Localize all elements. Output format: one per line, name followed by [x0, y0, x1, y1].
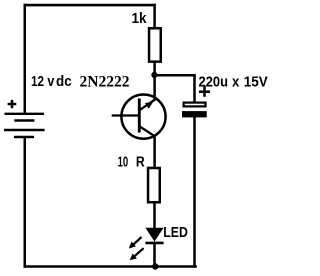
LED D1 cathode bar — [145, 242, 163, 245]
transistor Q1 collector diagonal — [139, 100, 155, 111]
wire left rail upper — [24, 4, 27, 114]
transistor Q1 base bar — [138, 99, 141, 133]
wire LED to bottom rail — [153, 242, 156, 267]
resistor R1 1k body — [149, 28, 161, 61]
wire collector lead — [153, 74, 156, 100]
wire bottom rail — [24, 265, 197, 268]
wire 1k to junction — [153, 62, 156, 77]
resistor R2 10R body — [148, 168, 160, 202]
capacitor C1 plus sign — [199, 85, 210, 96]
svg-text:R: R — [136, 155, 145, 171]
svg-text:x: x — [232, 75, 240, 91]
capacitor C1 top plate — [184, 103, 206, 107]
svg-text:v: v — [47, 74, 55, 90]
svg-text:15V: 15V — [244, 75, 268, 91]
svg-text:12: 12 — [31, 74, 44, 90]
battery B1 plate short — [14, 119, 34, 121]
wire 10R to LED — [153, 202, 156, 229]
LED light arrow 2 — [130, 248, 144, 260]
wire top rail — [24, 4, 156, 7]
svg-text:LED: LED — [163, 225, 188, 241]
wire junction to capacitor corner — [153, 74, 195, 77]
wire capacitor branch upper — [193, 74, 196, 103]
svg-text:10: 10 — [118, 155, 129, 171]
wire 1k branch top — [153, 4, 156, 29]
capacitor C1 bottom plate — [182, 111, 207, 117]
transistor Q1 base lead — [112, 114, 140, 116]
junction node B dot — [152, 263, 158, 269]
wire emitter lead — [153, 136, 156, 169]
transistor Q1 emitter diagonal — [139, 126, 155, 136]
wire left rail lower — [24, 137, 27, 268]
wire capacitor branch lower — [193, 117, 196, 268]
label 10 R — [118, 155, 145, 171]
transistor Q1 body circle — [121, 95, 165, 139]
battery B1 plate long top — [5, 113, 45, 115]
battery B1 plate long lower — [4, 129, 45, 131]
transistor Q1 arrow head — [145, 101, 154, 108]
LED D1 triangle — [145, 228, 163, 242]
label 12 v dc — [31, 74, 72, 90]
svg-text:1k: 1k — [132, 11, 148, 27]
label 220u x 15V — [199, 75, 269, 91]
svg-text:220u: 220u — [199, 75, 229, 91]
svg-text:2N2222: 2N2222 — [80, 74, 130, 91]
LED light arrow 1 — [129, 237, 142, 249]
battery plus sign — [8, 100, 17, 108]
junction node A dot — [151, 72, 157, 78]
svg-text:dc: dc — [56, 74, 72, 90]
battery B1 plate short bottom — [14, 136, 34, 138]
